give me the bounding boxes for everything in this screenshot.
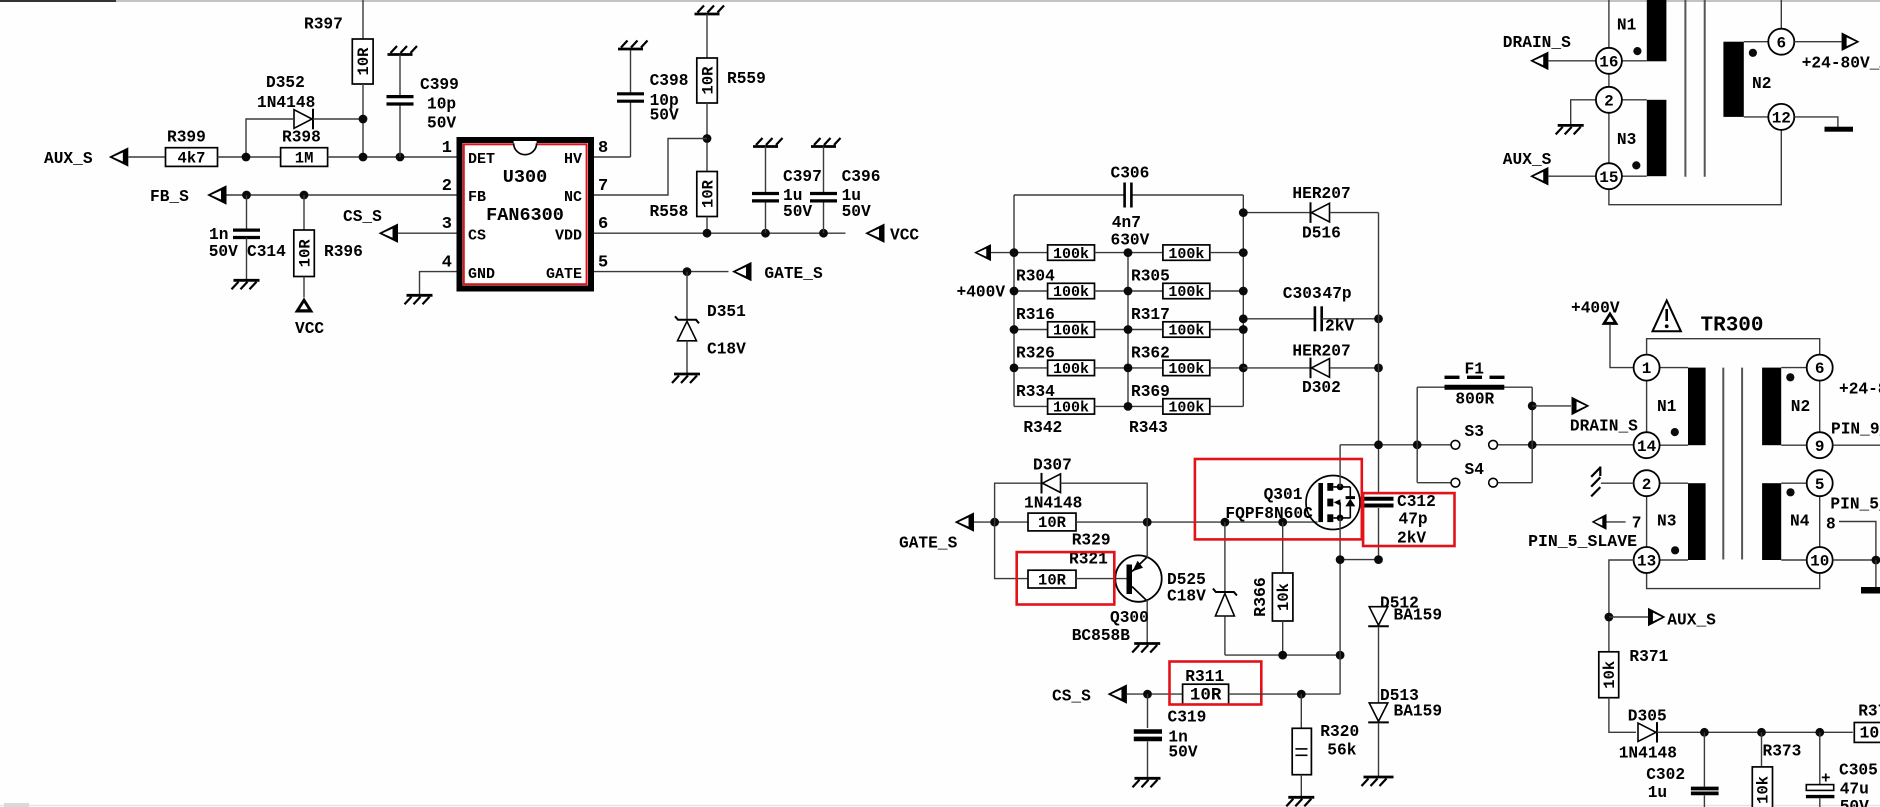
svg-text:N3: N3: [1617, 131, 1636, 149]
parallel rails: [1416, 387, 1418, 483]
resistor R558: [697, 172, 718, 217]
capacitor C305 47u electrolytic: [1819, 732, 1821, 784]
svg-text:2: 2: [442, 177, 452, 196]
node: [703, 229, 712, 238]
wire middle rail: [1127, 253, 1129, 407]
red highlight Q301: [1195, 459, 1362, 539]
node: [703, 134, 712, 143]
node: [359, 153, 368, 162]
svg-text:14: 14: [1637, 438, 1657, 456]
svg-text:10k: 10k: [1275, 583, 1293, 611]
svg-text:AUX_S: AUX_S: [1503, 151, 1552, 169]
node: [242, 153, 251, 162]
wire source: [1339, 518, 1341, 694]
svg-text:47u: 47u: [1840, 781, 1869, 799]
IC U300 FAN6300: [460, 140, 592, 289]
svg-text:FAN6300: FAN6300: [486, 205, 564, 226]
capacitor C314: [246, 195, 248, 230]
capacitor C303 47p 2kV: [1243, 318, 1315, 320]
transistor Q300 BC858B: [1115, 555, 1161, 601]
page top border: [0, 0, 1880, 2]
svg-text:+24-80V_A: +24-80V_A: [1802, 55, 1880, 73]
svg-text:50V: 50V: [1840, 798, 1869, 807]
resistor R373 10k: [1761, 732, 1763, 767]
svg-text:N4: N4: [1790, 513, 1810, 531]
wire: [303, 277, 305, 298]
ground: [695, 13, 720, 16]
svg-text:C314: C314: [247, 243, 286, 261]
node: [683, 267, 692, 276]
wire: [706, 14, 708, 58]
wire: [128, 156, 165, 158]
svg-text:5: 5: [598, 254, 608, 273]
wire gate: [1076, 521, 1318, 523]
svg-text:DET: DET: [468, 151, 495, 168]
node: [1124, 402, 1133, 411]
ground: [753, 145, 778, 148]
svg-text:CS_S: CS_S: [343, 208, 382, 226]
svg-text:GATE_S: GATE_S: [764, 265, 823, 283]
svg-text:F1: F1: [1465, 360, 1485, 378]
resistor R397: [352, 39, 373, 84]
capacitor C399: [399, 55, 401, 96]
zener D525 C18V: [1224, 522, 1226, 591]
resistor R398: [281, 148, 328, 167]
svg-text:Q301: Q301: [1264, 486, 1303, 504]
winding N3: [1688, 483, 1706, 560]
page bottom border: [0, 805, 1880, 807]
svg-text:50V: 50V: [650, 107, 679, 125]
svg-text:47p: 47p: [1399, 511, 1428, 529]
wire: [1127, 693, 1183, 695]
wire drain: [1339, 445, 1341, 487]
svg-text:N1: N1: [1617, 16, 1637, 34]
svg-text:9: 9: [1815, 438, 1825, 456]
fuse F1 800R: [1417, 386, 1532, 388]
ground: [407, 294, 433, 297]
svg-text:GATE: GATE: [546, 266, 582, 283]
resistor R366 10k: [1282, 522, 1284, 573]
svg-text:S4: S4: [1465, 461, 1485, 479]
svg-text:BA159: BA159: [1394, 703, 1443, 721]
resistor R343 100k: [1128, 405, 1163, 407]
wire: [246, 119, 293, 157]
capacitor C396: [823, 147, 825, 193]
pin link 2-15: [1608, 113, 1610, 163]
svg-text:3: 3: [442, 215, 452, 234]
svg-text:R399: R399: [167, 129, 206, 147]
wire gate: [974, 521, 1028, 523]
pin circles: [1634, 355, 1660, 381]
svg-text:CS_S: CS_S: [1052, 688, 1091, 706]
svg-text:12: 12: [1772, 110, 1791, 128]
svg-text:HER207: HER207: [1292, 343, 1350, 361]
winding N4: [1762, 483, 1781, 560]
resistor R329 10R: [1028, 513, 1076, 531]
svg-text:1: 1: [1642, 360, 1652, 378]
svg-text:100k: 100k: [1053, 400, 1089, 417]
signal ground bar: [1875, 560, 1877, 587]
wire pin13 to AUX: [1609, 560, 1634, 652]
red highlight R311: [1170, 662, 1262, 705]
svg-text:8: 8: [1826, 516, 1836, 534]
svg-text:50V: 50V: [783, 203, 812, 221]
pin link 16-2: [1608, 74, 1610, 87]
node: [242, 191, 251, 200]
chassis at pin 2: [1601, 482, 1634, 484]
svg-text:10k: 10k: [1601, 661, 1619, 689]
svg-text:50V: 50V: [427, 115, 456, 133]
diode D516 HER207: [1243, 212, 1309, 214]
svg-text:50V: 50V: [842, 203, 871, 221]
svg-text:10: 10: [1810, 553, 1829, 571]
net DRAIN_S: [1528, 402, 1537, 411]
node: [1010, 248, 1019, 257]
svg-text:R559: R559: [727, 70, 766, 88]
node: [1010, 325, 1019, 334]
svg-text:C319: C319: [1168, 709, 1207, 727]
svg-text:VCC: VCC: [295, 320, 324, 338]
pin links: [1646, 381, 1648, 433]
red highlight C312: [1363, 493, 1454, 546]
svg-text:100k: 100k: [1053, 284, 1089, 301]
svg-text:10p: 10p: [427, 96, 456, 114]
svg-text:D351: D351: [707, 303, 746, 321]
svg-text:C398: C398: [650, 72, 689, 90]
svg-text:8: 8: [598, 139, 608, 158]
svg-text:100k: 100k: [1053, 246, 1089, 263]
svg-text:10R: 10R: [699, 179, 717, 208]
wire: [218, 156, 281, 158]
svg-text:4n7: 4n7: [1112, 214, 1141, 232]
bottom link 15-12: [1609, 130, 1781, 205]
svg-text:R558: R558: [650, 203, 689, 221]
svg-text:4: 4: [442, 254, 452, 273]
svg-text:10R: 10R: [699, 66, 717, 95]
svg-text:HV: HV: [564, 151, 582, 168]
svg-text:6: 6: [1776, 34, 1786, 52]
wire: [313, 118, 363, 120]
wire top link 1-6: [1647, 339, 1820, 355]
net 7 PIN_5_SLAVE: [1592, 514, 1607, 530]
svg-text:R37: R37: [1858, 702, 1880, 720]
svg-text:47p: 47p: [1323, 285, 1352, 303]
ground: [234, 279, 260, 282]
wire pin7 NC: [594, 139, 707, 196]
wire: [1076, 578, 1127, 580]
svg-text:N3: N3: [1657, 513, 1676, 531]
warning triangle: [1653, 301, 1681, 332]
svg-text:56k: 56k: [1327, 741, 1356, 759]
resistor R559: [697, 58, 718, 103]
svg-text:1N4148: 1N4148: [257, 94, 315, 112]
resistor R334 100k: [1014, 367, 1048, 369]
resistor R305 100k: [1128, 252, 1163, 254]
svg-text:N2: N2: [1752, 75, 1771, 93]
net +24-80V_A: [1794, 41, 1841, 43]
node: [396, 153, 405, 162]
node: [761, 229, 770, 238]
resistor R342 100k: [1014, 405, 1048, 407]
resistor R369 100k: [1128, 367, 1163, 369]
resistor R311 10R: [1183, 684, 1229, 704]
wire right rail: [1242, 195, 1244, 406]
svg-text:C306: C306: [1111, 165, 1150, 183]
svg-text:C305: C305: [1839, 762, 1878, 780]
capacitor C319 1n 50V: [1147, 694, 1149, 728]
svg-text:7: 7: [1632, 515, 1642, 533]
svg-text:FQPF8N60C: FQPF8N60C: [1225, 505, 1313, 523]
resistor R399: [166, 148, 218, 167]
svg-text:50V: 50V: [209, 243, 238, 261]
svg-text:C302: C302: [1646, 766, 1685, 784]
svg-text:C397: C397: [783, 168, 822, 186]
node: [1010, 287, 1019, 296]
svg-text:800R: 800R: [1455, 390, 1494, 408]
wire: [362, 0, 364, 39]
svg-text:100k: 100k: [1168, 361, 1204, 378]
wire pin4 GND: [420, 272, 457, 296]
node: [1297, 690, 1306, 699]
svg-text:10R: 10R: [1190, 685, 1222, 705]
ground: [811, 145, 836, 148]
resistor R326 100k: [1014, 329, 1048, 331]
svg-text:1N4148: 1N4148: [1024, 495, 1082, 513]
svg-text:NC: NC: [564, 189, 582, 206]
capacitor C306 4n7 630V: [1123, 183, 1126, 208]
diode D513 BA159: [1369, 703, 1388, 722]
signal ground bar top: [1794, 117, 1838, 127]
svg-text:16: 16: [1599, 53, 1618, 71]
core top: [1684, 0, 1686, 177]
svg-text:10R: 10R: [1038, 571, 1067, 589]
svg-text:2: 2: [1642, 476, 1652, 494]
svg-text:+400V: +400V: [957, 284, 1006, 302]
svg-text:1M: 1M: [295, 149, 314, 167]
resistor R362 100k: [1128, 329, 1163, 331]
svg-text:100k: 100k: [1053, 361, 1089, 378]
svg-text:BC858B: BC858B: [1072, 627, 1131, 645]
diode D305 1N4148: [1656, 722, 1658, 742]
svg-text:R398: R398: [282, 129, 321, 147]
svg-text:2kV: 2kV: [1325, 318, 1354, 336]
svg-text:C303: C303: [1283, 285, 1322, 303]
svg-text:GND: GND: [468, 266, 495, 283]
node: [990, 518, 999, 527]
svg-text:100k: 100k: [1168, 400, 1204, 417]
svg-text:C18V: C18V: [707, 341, 746, 359]
svg-text:U300: U300: [503, 167, 547, 188]
ground: [1364, 776, 1394, 779]
svg-text:10k: 10k: [1859, 724, 1880, 743]
svg-text:R371: R371: [1629, 648, 1668, 666]
capacitor C398: [630, 103, 632, 158]
svg-text:DRAIN_S: DRAIN_S: [1503, 34, 1571, 52]
svg-text:CS: CS: [468, 228, 486, 245]
svg-text:C396: C396: [842, 168, 881, 186]
svg-text:D307: D307: [1033, 457, 1072, 475]
svg-text:2: 2: [1604, 92, 1614, 110]
svg-text:D352: D352: [266, 74, 305, 92]
wire pin1: [328, 156, 457, 158]
node: [819, 229, 828, 238]
svg-text:D525: D525: [1167, 571, 1206, 589]
svg-text:R320: R320: [1320, 723, 1359, 741]
switch S4: [1417, 482, 1451, 484]
svg-text:7: 7: [598, 177, 608, 196]
ground: [1134, 642, 1160, 645]
ground: [1135, 777, 1161, 780]
pin circles top transformer: [1596, 48, 1622, 74]
wire source to D512 rail: [1340, 559, 1378, 561]
svg-text:R342: R342: [1023, 419, 1062, 437]
resistor R377 10k partial: [1854, 723, 1880, 743]
svg-text:100k: 100k: [1168, 246, 1204, 263]
svg-text:Q300: Q300: [1110, 609, 1149, 627]
winding N1: [1688, 368, 1706, 446]
wire pin5 GATE: [594, 271, 729, 273]
diode D512 BA159: [1369, 607, 1388, 626]
wire: [1229, 693, 1341, 695]
node: [300, 191, 309, 200]
ground: [674, 373, 700, 376]
svg-text:C399: C399: [420, 76, 459, 94]
svg-text:+: +: [1821, 770, 1831, 788]
node: [1010, 364, 1019, 373]
svg-text:+400V: +400V: [1571, 300, 1620, 318]
resistor R304 100k: [1014, 252, 1048, 254]
svg-text:R373: R373: [1763, 743, 1802, 761]
wire: [1608, 0, 1610, 48]
svg-text:1n: 1n: [209, 226, 228, 244]
svg-text:R396: R396: [324, 243, 363, 261]
svg-text:R366: R366: [1251, 577, 1270, 617]
core: [1722, 368, 1724, 560]
svg-text:VDD: VDD: [555, 228, 582, 245]
winding N2: [1762, 368, 1781, 446]
svg-text:R343: R343: [1129, 419, 1168, 437]
svg-text:100k: 100k: [1168, 323, 1204, 340]
red highlight R321: [1017, 552, 1115, 604]
resistor R320 56k: [1300, 694, 1302, 728]
svg-text:TR300: TR300: [1701, 315, 1764, 338]
svg-text:D305: D305: [1628, 708, 1667, 726]
wire: [1657, 731, 1853, 733]
wire: [1610, 325, 1634, 368]
winding N3 top: [1647, 100, 1667, 176]
svg-text:FB_S: FB_S: [150, 188, 189, 206]
net VCC: [865, 224, 885, 243]
wire top rail: [1014, 194, 1125, 196]
svg-text:PIN_5_: PIN_5_: [1830, 496, 1880, 514]
earth at pin2: [1571, 100, 1596, 126]
wire pin8 HV: [594, 156, 631, 158]
ground: [618, 48, 643, 51]
svg-text:S3: S3: [1465, 423, 1484, 441]
node: [1143, 690, 1152, 699]
capacitor C302 1u: [1703, 732, 1705, 786]
winding N2 top: [1723, 42, 1743, 117]
svg-text:50V: 50V: [1168, 744, 1197, 762]
svg-text:R397: R397: [304, 16, 343, 34]
diode D302 HER207: [1243, 367, 1309, 369]
svg-text:630V: 630V: [1111, 232, 1150, 250]
bottom link 13-10: [1647, 573, 1820, 589]
MOSFET Q301 FQPF8N60C: [1306, 476, 1360, 530]
zener D351 C18V: [686, 272, 688, 319]
svg-text:13: 13: [1637, 553, 1656, 571]
net AUX_S: [1605, 613, 1614, 622]
svg-text:4k7: 4k7: [178, 149, 206, 167]
svg-text:10R: 10R: [296, 239, 314, 268]
svg-text:AUX_S: AUX_S: [44, 150, 93, 168]
svg-text:HER207: HER207: [1292, 185, 1350, 203]
svg-text:1u: 1u: [1648, 784, 1667, 802]
svg-text:DRAIN_S: DRAIN_S: [1570, 418, 1638, 436]
svg-text:GATE_S: GATE_S: [899, 535, 958, 553]
svg-text:AUX_S: AUX_S: [1667, 611, 1716, 629]
wire: [362, 84, 364, 157]
svg-text:6: 6: [1815, 360, 1825, 378]
svg-text:100k: 100k: [1168, 284, 1204, 301]
power VCC: [295, 298, 314, 313]
node: [359, 115, 368, 124]
net GATE_S: [732, 262, 752, 281]
svg-text:C312: C312: [1397, 493, 1436, 511]
resistor R316 100k: [1014, 290, 1048, 292]
svg-text:6: 6: [598, 215, 608, 234]
svg-text:R329: R329: [1072, 532, 1111, 550]
svg-text:D516: D516: [1302, 225, 1341, 243]
svg-text:N2: N2: [1791, 398, 1810, 416]
net +400V arrow: [974, 244, 991, 261]
svg-text:PIN_5_SLAVE: PIN_5_SLAVE: [1528, 532, 1637, 551]
svg-text:N1: N1: [1657, 398, 1677, 416]
wire left rail: [1013, 195, 1015, 406]
winding N1 top: [1647, 0, 1667, 61]
svg-text:10R: 10R: [1038, 514, 1067, 532]
wire pin10 out: [1833, 559, 1880, 561]
svg-text:PIN_9_: PIN_9_: [1831, 421, 1880, 439]
svg-text:1N4148: 1N4148: [1619, 744, 1677, 762]
svg-text:100k: 100k: [1053, 323, 1089, 340]
svg-text:10R: 10R: [355, 47, 373, 76]
svg-text:C18V: C18V: [1167, 588, 1206, 606]
wire: [1780, 0, 1782, 29]
wire source row: [1225, 654, 1340, 656]
svg-text:15: 15: [1599, 169, 1618, 187]
wire HV rail down to drain node: [1378, 213, 1380, 493]
wire drain rail: [1340, 444, 1451, 446]
capacitor C397: [765, 147, 767, 193]
diode D352 1N4148: [312, 109, 314, 130]
svg-text:+24-8: +24-8: [1839, 380, 1880, 398]
resistor R396: [303, 195, 305, 230]
svg-text:FB: FB: [468, 189, 486, 206]
switch S3: [1451, 440, 1460, 449]
wire: [706, 103, 708, 172]
wire: [1609, 698, 1636, 733]
resistor R317 100k: [1128, 290, 1163, 292]
wire pin6 VDD: [594, 232, 846, 234]
resistor R321 10R: [995, 522, 1028, 579]
wire pin9 out: [1833, 444, 1880, 446]
capacitor C312 47p 2kV: [1363, 497, 1394, 501]
wire pin3: [398, 232, 457, 234]
resistor R371 10k: [1599, 652, 1619, 698]
svg-text:BA159: BA159: [1394, 606, 1443, 624]
svg-text:10k: 10k: [1755, 776, 1773, 804]
